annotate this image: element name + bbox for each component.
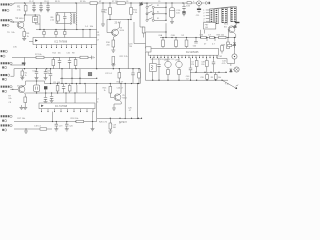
resistor R21 bbox=[68, 84, 71, 94]
svg-text:47: 47 bbox=[129, 110, 131, 112]
svg-text:TS: TS bbox=[7, 32, 10, 34]
label R17 10k bbox=[17, 118, 26, 120]
label switch row 1 bbox=[157, 5, 159, 7]
svg-text:9014: 9014 bbox=[19, 18, 24, 20]
terminal label row 4 bbox=[1, 62, 13, 64]
resistor R8 on bus bbox=[90, 2, 97, 5]
diode VD6 bbox=[227, 64, 235, 73]
node blob bbox=[22, 62, 26, 64]
svg-text:1k: 1k bbox=[104, 90, 106, 92]
ground under R10 bbox=[111, 50, 115, 52]
stub components above IC1 bbox=[43, 30, 90, 38]
label R36 10k bbox=[217, 34, 224, 36]
label R46 10k bbox=[211, 77, 221, 79]
svg-text:IC2 AN5435: IC2 AN5435 bbox=[186, 51, 199, 54]
terminal node B+ bbox=[205, 2, 210, 4]
svg-text:C19: C19 bbox=[59, 125, 62, 127]
transistor V5 bbox=[114, 94, 121, 101]
capacitor C19 bbox=[62, 84, 65, 94]
wire V1 collector bbox=[23, 15, 25, 22]
component blob bbox=[88, 72, 92, 75]
pin number row bbox=[151, 59, 175, 61]
label R32 bbox=[171, 35, 176, 37]
ground under C10 bbox=[182, 14, 186, 16]
wire net row bbox=[107, 19, 132, 20]
wire V5 emitter bbox=[114, 100, 121, 108]
wire switch column left bbox=[146, 8, 148, 19]
svg-text:R8: R8 bbox=[72, 53, 74, 55]
resistor R32 bbox=[175, 38, 178, 49]
svg-text:4.7k: 4.7k bbox=[222, 63, 226, 65]
svg-text:C11 100: C11 100 bbox=[53, 82, 60, 84]
label C22 0.1 bbox=[105, 73, 113, 75]
wire IC1 left pin bbox=[29, 41, 33, 43]
label R4 bbox=[104, 9, 108, 14]
transistor V10 bbox=[228, 26, 235, 33]
terminal label row 2b bbox=[2, 24, 9, 26]
ground under C1 bbox=[32, 10, 36, 12]
resistor R24v bbox=[138, 69, 141, 84]
svg-text:C8: C8 bbox=[8, 102, 11, 104]
svg-text:C22 0.1: C22 0.1 bbox=[105, 73, 113, 75]
wire switch feed bbox=[146, 2, 147, 6]
svg-text:R4: R4 bbox=[104, 9, 108, 11]
wire IC1b pin drops bbox=[53, 112, 93, 122]
inductor L2 bbox=[76, 84, 79, 94]
wire net y129 bbox=[14, 128, 52, 129]
terminal label row 2 bbox=[1, 19, 13, 21]
wire V10 base bbox=[228, 29, 231, 37]
svg-text:C11: C11 bbox=[196, 15, 201, 17]
svg-text:1.5k: 1.5k bbox=[133, 12, 138, 14]
resistor R12 bbox=[36, 56, 44, 58]
svg-text:C13: C13 bbox=[32, 70, 35, 72]
svg-text:R22 2.2k: R22 2.2k bbox=[120, 56, 128, 58]
wire net from switch bbox=[146, 23, 167, 48]
capacitor C46 bbox=[189, 58, 192, 81]
wire diode drop bbox=[139, 3, 141, 27]
label R18 10k bbox=[71, 118, 80, 120]
wire right mid bus bbox=[190, 72, 227, 73]
label C10 100 bbox=[176, 10, 181, 15]
terminal label row 5b bbox=[2, 78, 7, 80]
label V8 bbox=[175, 59, 179, 61]
IC U1 TA7698 bbox=[33, 38, 97, 45]
wire V3 base feed bbox=[106, 20, 108, 33]
wire input net y57.4 bbox=[12, 56, 80, 58]
node junctions on top bus bbox=[24, 2, 184, 3]
ground under C13 bbox=[35, 78, 39, 80]
svg-text:R26 4.7k: R26 4.7k bbox=[99, 122, 107, 124]
resistor R45 bbox=[206, 72, 209, 80]
label values above top bus bbox=[29, 1, 160, 3]
svg-text:2.2k: 2.2k bbox=[50, 19, 54, 21]
wire base of V1 bbox=[11, 21, 19, 22]
svg-text:145: 145 bbox=[205, 27, 208, 29]
wire V2 base bbox=[10, 89, 18, 90]
terminal label row 3 bbox=[1, 50, 8, 52]
wire V5 base bbox=[110, 96, 114, 98]
label angled 9.2k bbox=[119, 121, 126, 124]
wire V10 emitter bbox=[229, 32, 236, 37]
label +3 1k bbox=[96, 99, 99, 104]
svg-text:S0.4: S0.4 bbox=[224, 24, 229, 26]
diode VD9 bbox=[233, 25, 237, 28]
resistor R14 h bbox=[80, 56, 92, 58]
ground under R19 bbox=[20, 107, 28, 109]
svg-text:C18 0.1: C18 0.1 bbox=[34, 126, 42, 128]
transformer T1 core bbox=[73, 14, 74, 24]
resistor R5 bbox=[23, 32, 26, 39]
label R12 10k bbox=[35, 54, 43, 56]
wire stub pair bbox=[53, 56, 75, 58]
label R5 1k bbox=[26, 33, 30, 38]
label fuse 105 bbox=[186, 6, 190, 8]
flyback transformer T2 bbox=[210, 7, 237, 24]
svg-text:10k: 10k bbox=[8, 98, 11, 100]
transformer T1 primary winding bbox=[70, 13, 73, 25]
label R27 2.2k bbox=[119, 122, 127, 124]
capacitor C38 bbox=[204, 38, 207, 46]
switch S1 contact row 3 bbox=[146, 18, 166, 22]
svg-text:10S: 10S bbox=[186, 6, 190, 8]
resistor R34 on bus bbox=[201, 36, 206, 38]
svg-text:R1: R1 bbox=[17, 6, 21, 9]
resistor R18 bbox=[76, 120, 84, 122]
label C11 100 bbox=[53, 82, 60, 84]
wire bus y93 bbox=[25, 92, 97, 93]
label 14 10k bbox=[85, 26, 94, 28]
wire net y118.3 bbox=[97, 118, 142, 119]
wire meter out bbox=[201, 2, 204, 4]
ground under R5 bbox=[22, 38, 26, 40]
diode VD1 bbox=[139, 2, 143, 6]
capacitor C37 bbox=[193, 38, 198, 48]
wire V3 emitter bbox=[113, 35, 116, 40]
wire to R13 bbox=[140, 26, 144, 28]
capacitor C24 bbox=[50, 93, 54, 103]
wire switch column right bbox=[152, 8, 154, 19]
wire lower input stub bbox=[11, 69, 15, 77]
svg-text:170: 170 bbox=[191, 64, 194, 66]
label C29 330 bbox=[113, 124, 116, 129]
svg-text:C42: C42 bbox=[219, 56, 222, 58]
wire lower right bus bbox=[145, 80, 228, 81]
wire filter to node bbox=[35, 15, 40, 29]
label + meter bbox=[193, 1, 195, 3]
wire V5 collector bbox=[119, 84, 121, 95]
label C13 bbox=[32, 70, 35, 72]
label V3 9014 bbox=[120, 28, 125, 33]
ground under C3 bbox=[46, 10, 50, 12]
wire to sync terminal bbox=[222, 80, 238, 89]
label C26 4.7 bbox=[117, 87, 124, 89]
wire chroma vertical A bbox=[128, 19, 129, 69]
svg-text:C26 4.7: C26 4.7 bbox=[117, 87, 124, 89]
svg-text:C16: C16 bbox=[66, 53, 69, 55]
svg-text:10k: 10k bbox=[90, 26, 94, 28]
svg-text:1.4: 1.4 bbox=[85, 26, 89, 28]
label 25 4.7 bbox=[115, 23, 122, 25]
svg-text:2: 2 bbox=[203, 13, 204, 15]
inductor L3 bbox=[84, 84, 87, 94]
capacitor C21 bbox=[44, 93, 48, 104]
capacitor C47 bbox=[212, 58, 215, 73]
svg-text:200: 200 bbox=[106, 44, 110, 46]
svg-text:1: 1 bbox=[203, 10, 204, 12]
resistor R15 bbox=[21, 69, 24, 78]
svg-text:9014: 9014 bbox=[120, 30, 125, 32]
terminal label row 7 bbox=[1, 115, 13, 117]
transformer T1 secondary winding bbox=[75, 3, 78, 26]
speaker jack X1 bbox=[232, 45, 237, 59]
svg-text:IC1 TA7698: IC1 TA7698 bbox=[55, 105, 68, 108]
resistor R41 bbox=[228, 44, 235, 46]
resistor R16 bbox=[52, 57, 55, 68]
svg-text:4.7: 4.7 bbox=[212, 44, 216, 46]
label R34 bbox=[199, 34, 204, 36]
wire audio net bbox=[217, 55, 227, 63]
svg-text:S 40: S 40 bbox=[224, 83, 229, 86]
speaker X2 bbox=[233, 67, 239, 72]
terminal label row 1b bbox=[2, 9, 9, 11]
svg-text:330: 330 bbox=[113, 127, 116, 129]
svg-text:1k: 1k bbox=[104, 12, 107, 14]
terminal label row 4b bbox=[2, 66, 7, 68]
ground under C14 bbox=[44, 78, 48, 80]
label R26 4.7k bbox=[99, 122, 107, 124]
capacitor C16 bbox=[68, 57, 71, 68]
capacitor C17 bbox=[49, 69, 52, 84]
svg-text:10k: 10k bbox=[58, 53, 61, 55]
resistor R43 bbox=[195, 58, 198, 73]
svg-text:C6B: C6B bbox=[171, 35, 176, 37]
resistor R22 bbox=[112, 57, 115, 65]
svg-text:3: 3 bbox=[203, 16, 204, 18]
capacitor C15 bbox=[58, 57, 61, 68]
wire right feed bbox=[96, 4, 98, 68]
terminal label row 5 bbox=[1, 74, 10, 76]
wire top supply bus bbox=[14, 2, 187, 4]
callout box flyback bbox=[204, 23, 216, 30]
label left mid b bbox=[13, 47, 17, 49]
capacitor C23 bbox=[131, 69, 134, 84]
ground y129 bbox=[24, 129, 28, 133]
relay box S2 bbox=[150, 58, 157, 81]
wire collector node bbox=[24, 14, 40, 15]
svg-text:10k: 10k bbox=[11, 32, 14, 34]
label VD1 bbox=[144, 3, 149, 5]
svg-text:R14: R14 bbox=[52, 53, 55, 55]
ground V5 emitter bbox=[112, 108, 116, 110]
label switch row 2 bbox=[157, 12, 159, 14]
resistor R46 bbox=[214, 72, 217, 80]
svg-text:10k: 10k bbox=[218, 77, 221, 79]
capacitor C11 polarized bbox=[197, 6, 201, 13]
resistor R38 bbox=[227, 37, 230, 49]
svg-text:R17 10k: R17 10k bbox=[17, 118, 26, 120]
label C42 bbox=[219, 56, 222, 58]
svg-text:1.5k: 1.5k bbox=[17, 9, 22, 11]
wire jog y118-121 bbox=[96, 118, 98, 121]
svg-text:R9: R9 bbox=[96, 32, 100, 34]
ground right of R14 bbox=[92, 56, 95, 60]
label R33 bbox=[181, 35, 185, 37]
svg-text:10k: 10k bbox=[96, 35, 99, 37]
wire V2 collector bbox=[23, 81, 25, 87]
svg-text:200: 200 bbox=[201, 64, 204, 66]
resistor R33 bbox=[185, 38, 188, 49]
resistor R17v bbox=[74, 57, 77, 68]
wire V1 emitter bbox=[23, 28, 25, 32]
wire box drops bbox=[201, 30, 205, 38]
capacitor C3 bbox=[46, 3, 49, 10]
label C14 bbox=[47, 70, 50, 74]
resistor R23 bbox=[118, 69, 121, 84]
IC U2 bottom pins bbox=[150, 55, 218, 58]
svg-text:R7 10k: R7 10k bbox=[35, 54, 43, 56]
label V2 bbox=[17, 85, 25, 87]
label V10 bbox=[224, 24, 229, 26]
label C31 bbox=[69, 125, 72, 127]
capacitor C5 bbox=[63, 13, 66, 24]
label left mid a bbox=[7, 32, 15, 34]
IC U1 top pins bbox=[36, 45, 92, 49]
svg-text:R18 10k: R18 10k bbox=[71, 118, 80, 120]
T2 pin 3 bbox=[203, 16, 209, 18]
ceramic filter Z1 bbox=[33, 15, 38, 24]
fuse FU1 bbox=[187, 2, 197, 4]
capacitor C39 bbox=[212, 38, 216, 46]
wire net y121.5 bbox=[14, 121, 97, 122]
node junctions mid bus bbox=[162, 37, 215, 38]
svg-text:4.7: 4.7 bbox=[96, 39, 100, 41]
svg-text:K1: K1 bbox=[157, 5, 159, 7]
label R7 10k bbox=[8, 96, 11, 104]
wire bus drop x76.8 bbox=[76, 26, 78, 30]
wire V3 collector bbox=[117, 22, 120, 30]
switch S1 contact row 1 bbox=[146, 5, 166, 9]
label V7 bbox=[164, 58, 168, 61]
wire AGC input bbox=[11, 57, 26, 65]
resistor R25 bbox=[109, 84, 112, 98]
wire cross net bbox=[60, 78, 97, 79]
svg-text:14 13 12 11 10 9 8 7 6 5 4 3 2: 14 13 12 11 10 9 8 7 6 5 4 3 2 1 bbox=[151, 59, 175, 61]
resistor R29 bbox=[34, 126, 47, 131]
wire V10 collector bbox=[233, 23, 236, 26]
svg-text:+3: +3 bbox=[96, 99, 99, 101]
terminal label row 3b bbox=[1, 55, 6, 57]
transistor V1 bbox=[17, 21, 24, 28]
wire sub-net top bbox=[56, 12, 76, 14]
label S 40 bbox=[224, 83, 229, 86]
label R35 bbox=[208, 34, 212, 36]
T2 pin 4 bbox=[203, 18, 209, 20]
IC U1 second section bbox=[39, 103, 95, 109]
svg-text:C20: C20 bbox=[69, 125, 72, 127]
T2 pin 2 bbox=[203, 13, 209, 15]
ceramic filter Z2 bbox=[34, 81, 40, 93]
resistor R10 bbox=[112, 40, 115, 50]
label V1 bbox=[15, 18, 24, 20]
ground under C6 bbox=[101, 24, 105, 26]
svg-text:1.8k: 1.8k bbox=[13, 47, 17, 49]
svg-text:500: 500 bbox=[193, 46, 197, 48]
label V5 bbox=[122, 95, 127, 100]
svg-text:K1: K1 bbox=[157, 18, 159, 20]
wire chroma vertical B bbox=[134, 22, 146, 44]
diode VD5 bbox=[233, 37, 236, 48]
resistor R1 bbox=[24, 3, 27, 15]
label R11 bbox=[133, 9, 138, 14]
capacitor C30 bbox=[54, 122, 58, 132]
wire drops to IC1b bbox=[66, 84, 97, 119]
capacitor C2 bbox=[39, 3, 42, 10]
svg-text:R36 10k: R36 10k bbox=[217, 34, 224, 36]
T2 pin 1 bbox=[203, 10, 209, 12]
ground under C2 bbox=[39, 10, 43, 12]
label R38 bbox=[221, 44, 226, 49]
label C28 47 bbox=[128, 108, 131, 113]
transistor V8 bbox=[176, 58, 182, 81]
svg-text:4: 4 bbox=[203, 18, 204, 20]
resistor R7 on bus bbox=[117, 2, 125, 5]
label R25 bbox=[103, 87, 108, 92]
svg-text:10: 10 bbox=[47, 73, 49, 75]
capacitor C13 bbox=[35, 69, 38, 78]
svg-text:100: 100 bbox=[176, 13, 180, 15]
label C46 bbox=[186, 76, 189, 80]
label pair1 bbox=[52, 53, 60, 55]
svg-text:C39: C39 bbox=[200, 77, 203, 79]
wire IC2 left drop bbox=[144, 52, 146, 80]
terminal label row 6 bbox=[1, 86, 13, 88]
resistor R28 bbox=[109, 118, 112, 131]
svg-text:25 4.7: 25 4.7 bbox=[115, 23, 122, 25]
IC U2 AN5435 bbox=[146, 47, 218, 55]
terminal label row 6b bbox=[2, 90, 7, 92]
label C43 bbox=[222, 61, 227, 66]
label R44 bbox=[201, 61, 204, 66]
svg-text:C6A: C6A bbox=[158, 34, 163, 37]
meter PA1 bbox=[197, 1, 202, 6]
terminal label row 1 (video input) bbox=[1, 3, 13, 5]
resistor R36 on bus bbox=[219, 36, 226, 38]
svg-text:K1: K1 bbox=[157, 12, 159, 14]
capacitor C6 bbox=[101, 3, 104, 24]
electrolytic blob C20 bbox=[44, 86, 47, 93]
label R22 2.2k bbox=[120, 56, 128, 58]
capacitor C42 bbox=[221, 46, 224, 54]
svg-text:R3: R3 bbox=[211, 77, 213, 79]
capacitor C9 electrolytic bbox=[169, 3, 174, 22]
wire jog to right section bbox=[139, 69, 141, 84]
wire bus y83.5 bbox=[45, 83, 141, 84]
ground under R22 bbox=[111, 65, 115, 67]
svg-text:1k: 1k bbox=[27, 36, 30, 38]
label R31 bbox=[158, 34, 163, 37]
IC U1b bottom pins bbox=[41, 109, 94, 113]
switch S1 contact row 2 bbox=[146, 11, 166, 15]
resistor R20 bbox=[56, 84, 59, 94]
wire sub-net bottom bbox=[56, 13, 71, 30]
svg-text:1/2: 1/2 bbox=[181, 35, 185, 37]
wire collector net bbox=[26, 80, 45, 83]
svg-text:C8: C8 bbox=[126, 1, 128, 3]
T2 pin 5 bbox=[203, 21, 209, 23]
resistor R6 bbox=[56, 13, 59, 24]
label under C11 bbox=[196, 15, 201, 17]
